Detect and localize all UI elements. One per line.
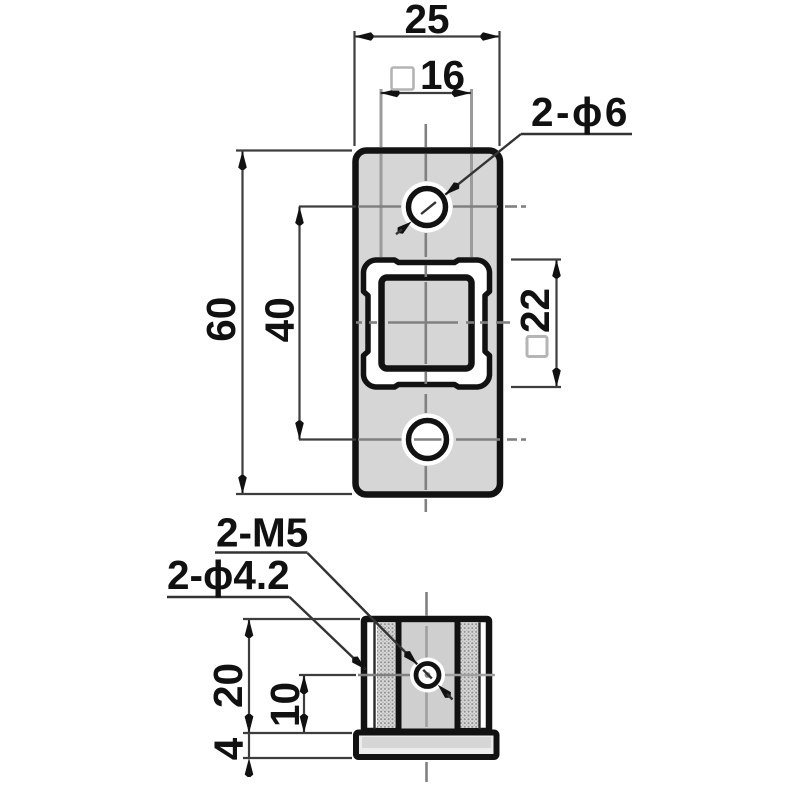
svg-text:20: 20 bbox=[205, 663, 251, 708]
svg-text:4: 4 bbox=[206, 737, 252, 760]
svg-text:22: 22 bbox=[512, 288, 558, 333]
svg-text:16: 16 bbox=[420, 52, 465, 98]
svg-text:2-ϕ4.2: 2-ϕ4.2 bbox=[167, 552, 290, 598]
svg-text:60: 60 bbox=[198, 297, 244, 342]
svg-text:25: 25 bbox=[404, 0, 449, 42]
svg-text:2-M5: 2-M5 bbox=[216, 510, 308, 556]
svg-text:10: 10 bbox=[262, 682, 308, 727]
svg-text:40: 40 bbox=[257, 297, 303, 342]
svg-text:2-ϕ6: 2-ϕ6 bbox=[531, 89, 630, 135]
